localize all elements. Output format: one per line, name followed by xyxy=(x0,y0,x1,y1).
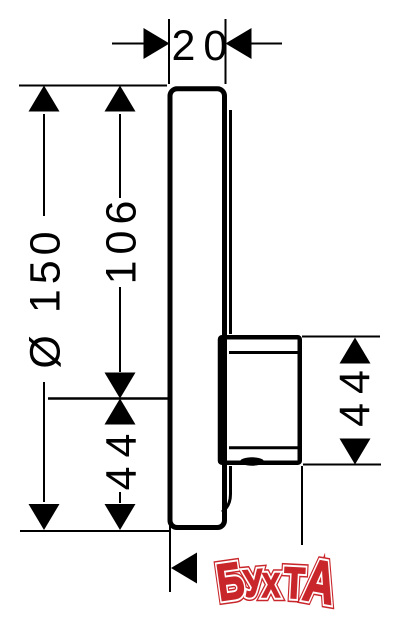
logo BUXTA watermark xyxy=(213,547,341,617)
svg-text:106: 106 xyxy=(98,195,146,285)
arrow 44 right up xyxy=(340,338,371,364)
extension line bottom-left vertical xyxy=(169,512,171,592)
dim line 20 right segment xyxy=(251,43,282,45)
plate outline xyxy=(170,89,225,528)
extension line valve top right xyxy=(302,336,380,338)
dim line 20 left segment xyxy=(112,43,145,45)
extension line top horizontal xyxy=(19,85,167,87)
extension line below valve xyxy=(301,466,303,545)
valve bottom bump xyxy=(240,457,264,465)
arrow 20 left xyxy=(144,28,170,59)
valve body xyxy=(220,337,300,463)
valve inner line bottom xyxy=(229,446,298,449)
arrow 106 bottom xyxy=(105,373,136,399)
plate front face line xyxy=(229,110,232,334)
svg-text:44: 44 xyxy=(98,425,146,491)
arrow 44 right down xyxy=(340,439,371,465)
svg-text:А: А xyxy=(299,547,341,617)
extension line top-left vertical (20 dim) xyxy=(168,19,170,84)
arrow bottom-left pointer xyxy=(171,553,197,584)
arrow 20 right xyxy=(226,28,252,59)
arrow d150 top xyxy=(29,86,60,112)
svg-text:Б: Б xyxy=(213,551,248,613)
svg-text:Ø 150: Ø 150 xyxy=(22,226,70,368)
svg-text:Х: Х xyxy=(262,566,281,605)
svg-text:20: 20 xyxy=(172,22,236,70)
center tick line xyxy=(48,397,168,400)
arrow 106 top xyxy=(105,86,136,112)
plate front face line lower xyxy=(222,466,231,512)
extension line top-right vertical (20 dim) xyxy=(225,19,227,84)
dim line 106 xyxy=(119,114,121,372)
extension line valve bottom right xyxy=(303,464,381,466)
arrow d150 bottom xyxy=(29,504,60,530)
dim line 44 left lower segment xyxy=(119,492,121,503)
valve inner line top xyxy=(229,351,298,354)
svg-text:44: 44 xyxy=(331,361,379,427)
dim line d150 xyxy=(43,114,45,502)
arrow 44 left down xyxy=(105,504,136,530)
extension line bottom horizontal xyxy=(20,530,171,532)
arrow 44 left up xyxy=(105,399,136,425)
